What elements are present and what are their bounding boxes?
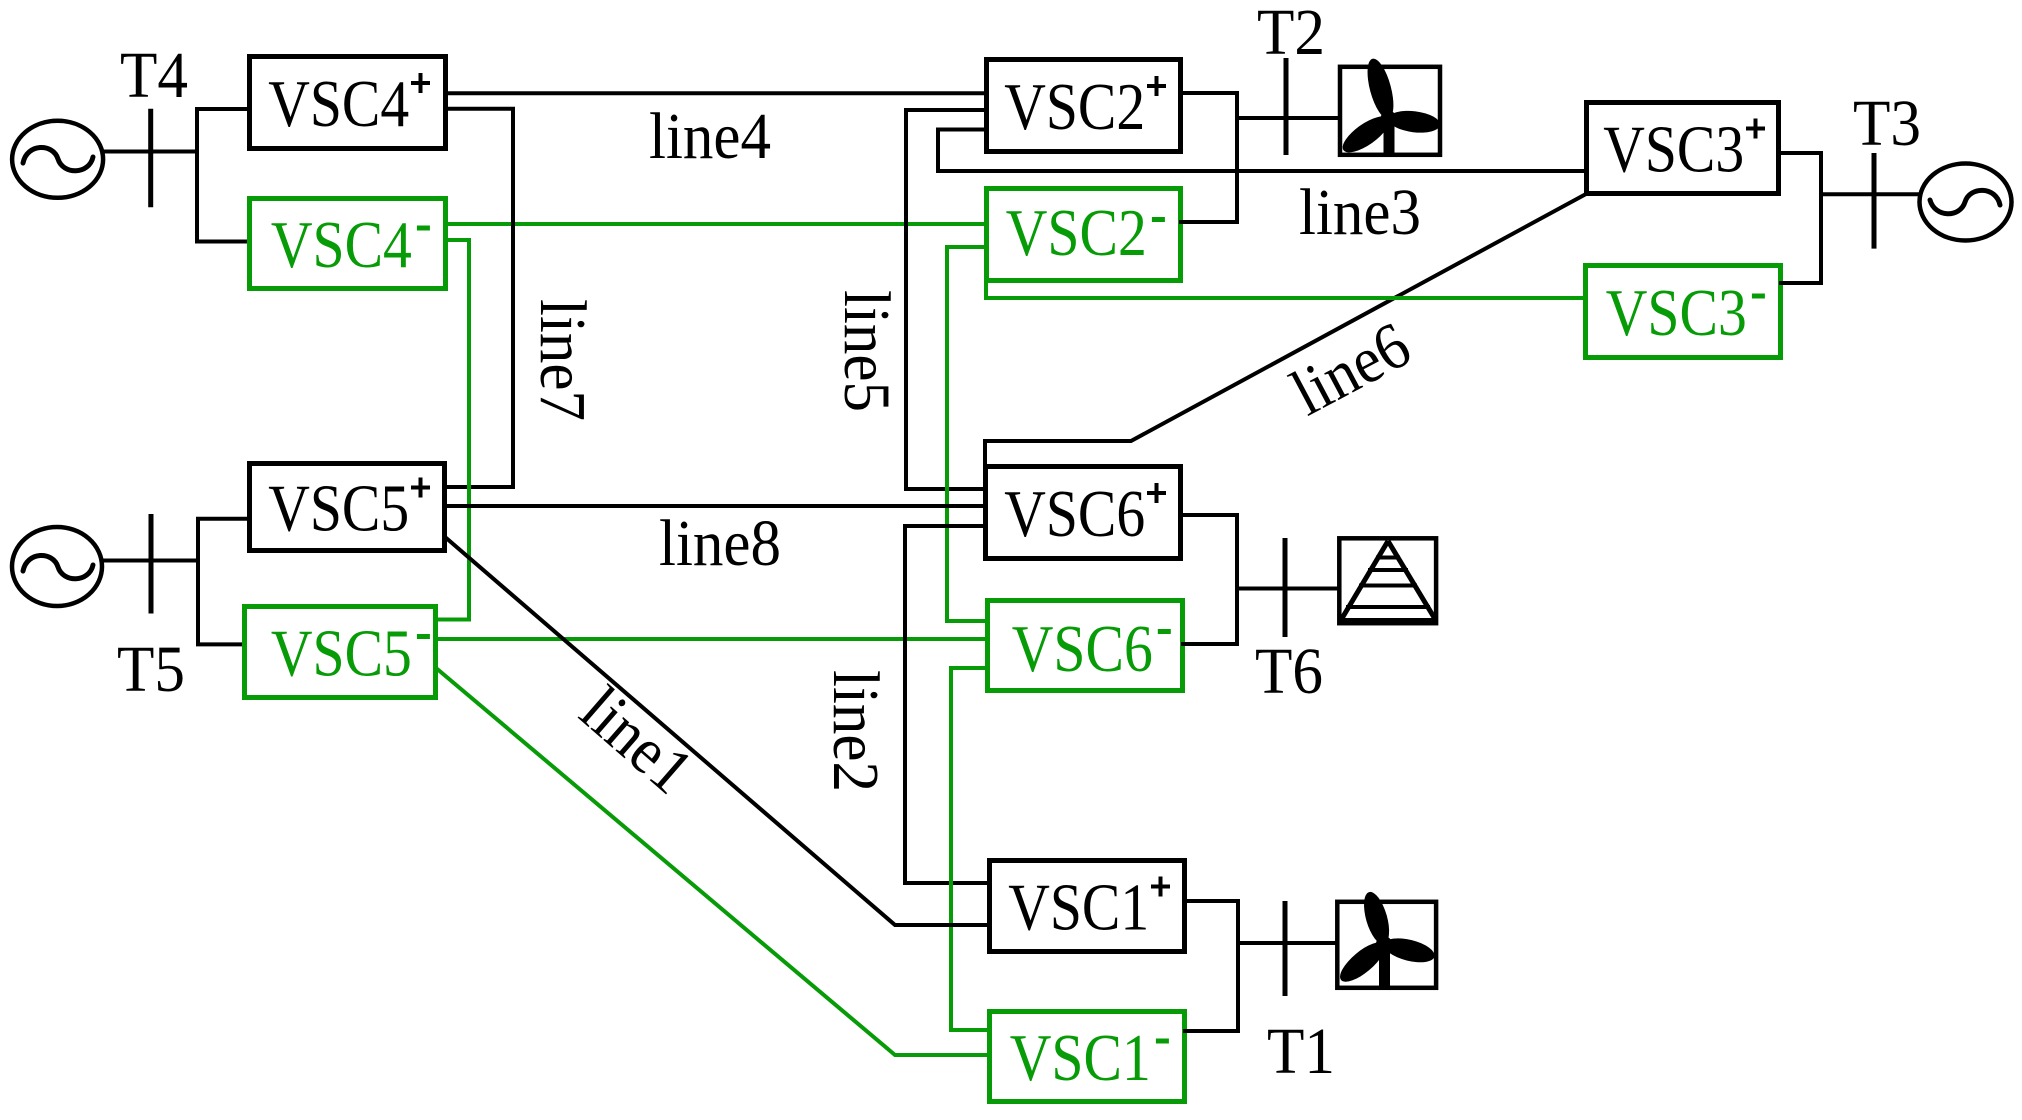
svg-text:VSC3: VSC3 bbox=[1606, 276, 1747, 350]
converter VSC4+ bbox=[250, 57, 446, 149]
VSC2 AC-side connector bbox=[1179, 91, 1340, 224]
svg-text:VSC1: VSC1 bbox=[1010, 1021, 1151, 1095]
wire line7 positive (VSC4+ to VSC5+) bbox=[445, 109, 513, 487]
wire line2 positive (VSC6+ to VSC1+) bbox=[905, 526, 989, 883]
svg-text:VSC1: VSC1 bbox=[1008, 871, 1149, 945]
wire line5 positive (VSC2+ to VSC6+) bbox=[906, 110, 988, 489]
wind turbine W1 bbox=[1334, 889, 1437, 988]
svg-text:T5: T5 bbox=[117, 633, 185, 706]
svg-text:VSC3: VSC3 bbox=[1603, 113, 1744, 187]
svg-text:VSC2: VSC2 bbox=[1004, 70, 1145, 144]
svg-text:VSC5: VSC5 bbox=[268, 472, 409, 546]
AC source G4 (top-left circle) bbox=[12, 121, 103, 198]
wind turbine W2 bbox=[1337, 56, 1441, 159]
wire line4 positive (VSC4+ to VSC2+) bbox=[446, 91, 988, 95]
svg-text:T6: T6 bbox=[1255, 635, 1323, 708]
wire G5 to T5 bus bbox=[102, 559, 198, 563]
converter VSC2+ bbox=[987, 60, 1181, 152]
wire line7 negative (VSC4- to VSC5-) bbox=[436, 240, 469, 620]
converter VSC3+ bbox=[1587, 103, 1779, 194]
svg-text:line5: line5 bbox=[830, 290, 903, 412]
wire line1 positive (VSC5+ to VSC1+, diagonal) bbox=[445, 537, 991, 925]
wire line1 negative (VSC5- to VSC1-, diagonal) bbox=[436, 668, 991, 1055]
svg-text:T3: T3 bbox=[1853, 87, 1921, 160]
wire line3 (VSC2+ to VSC3+) bbox=[938, 130, 1588, 172]
transformer tick T4 bbox=[148, 109, 153, 207]
converter VSC5+ bbox=[250, 464, 445, 551]
wire line8 (VSC5+ to VSC6+) bbox=[445, 504, 987, 508]
svg-text:VSC4: VSC4 bbox=[271, 208, 412, 282]
wire line2 negative (VSC6- to VSC1-) bbox=[951, 668, 989, 1030]
converter VSC5- bbox=[245, 607, 436, 698]
svg-text:VSC6: VSC6 bbox=[1012, 612, 1153, 686]
converter VSC3- bbox=[1586, 266, 1781, 358]
AC source G3 (right circle) bbox=[1920, 164, 2012, 241]
transformer tick T5 bbox=[149, 514, 154, 614]
wire junction to VSC5- bbox=[196, 642, 246, 646]
wire G4 to T4 bus bbox=[103, 150, 197, 154]
svg-text:line2: line2 bbox=[819, 670, 892, 792]
converter VSC1- bbox=[990, 1012, 1185, 1102]
AC source G5 (bottom-left circle) bbox=[12, 527, 102, 606]
wire line5 negative (VSC2- to VSC6-) bbox=[947, 247, 989, 621]
wire junction to VSC5+ bbox=[196, 517, 250, 521]
wire line6 negative (VSC2- to VSC3-) bbox=[986, 281, 1587, 298]
converter VSC6- bbox=[988, 601, 1183, 691]
load L6 (triangle symbol) bbox=[1339, 538, 1437, 623]
converter VSC1+ bbox=[990, 861, 1185, 952]
wire negative pole (VSC5- to VSC6-) bbox=[436, 637, 989, 641]
wire T4 junction vertical bbox=[195, 109, 199, 242]
svg-text:T4: T4 bbox=[120, 39, 188, 112]
VSC1 AC-side connector bbox=[1183, 899, 1337, 1033]
transformer tick T1 bbox=[1283, 901, 1288, 996]
VSC3 AC-side connector bbox=[1777, 151, 1920, 285]
svg-text:T1: T1 bbox=[1267, 1015, 1335, 1088]
wire junction to VSC4- bbox=[195, 240, 250, 244]
svg-text:T2: T2 bbox=[1257, 0, 1325, 69]
converter VSC6+ bbox=[986, 467, 1181, 559]
svg-text:line4: line4 bbox=[649, 100, 771, 173]
svg-text:line7: line7 bbox=[526, 299, 599, 421]
transformer tick T3 bbox=[1872, 153, 1877, 249]
wire junction to VSC4+ bbox=[195, 107, 250, 111]
svg-text:VSC2: VSC2 bbox=[1006, 196, 1147, 270]
converter VSC2- bbox=[987, 189, 1181, 281]
svg-text:VSC4: VSC4 bbox=[268, 67, 409, 141]
transformer tick T6 bbox=[1283, 538, 1288, 637]
transformer tick T2 bbox=[1284, 58, 1289, 155]
svg-text:line3: line3 bbox=[1299, 176, 1421, 249]
wire line6 positive (VSC6+ to VSC3+) bbox=[985, 194, 1586, 467]
svg-text:VSC5: VSC5 bbox=[271, 617, 412, 691]
VSC6 AC-side connector bbox=[1179, 513, 1339, 646]
svg-text:line8: line8 bbox=[659, 507, 781, 580]
wire line4 negative (VSC4- to VSC2-) bbox=[446, 222, 988, 226]
svg-text:VSC6: VSC6 bbox=[1004, 477, 1145, 551]
converter VSC4- bbox=[250, 199, 446, 289]
wire T5 junction vertical bbox=[196, 519, 200, 645]
